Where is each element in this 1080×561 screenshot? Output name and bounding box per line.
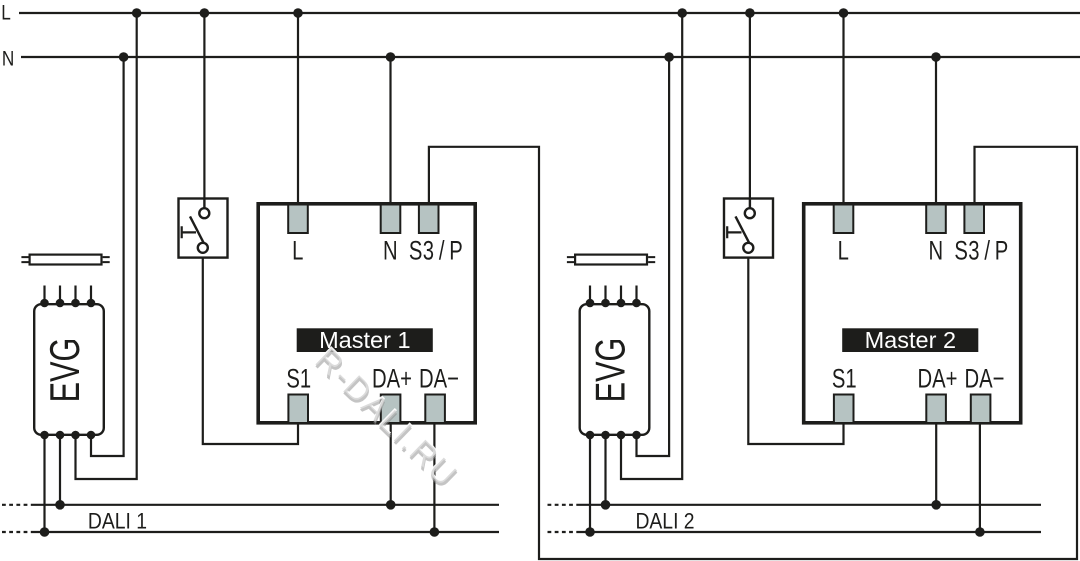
svg-text:L: L <box>1 1 11 25</box>
svg-text:N: N <box>928 236 943 267</box>
svg-text:DA−: DA− <box>965 364 1005 395</box>
svg-text:DALI 2: DALI 2 <box>635 509 694 534</box>
svg-text:L: L <box>838 236 849 267</box>
svg-text:EVG: EVG <box>42 338 89 403</box>
svg-text:N: N <box>383 236 398 267</box>
svg-text:EVG: EVG <box>587 338 634 403</box>
svg-text:L: L <box>292 236 303 267</box>
svg-text:S1: S1 <box>286 364 311 395</box>
svg-text:S1: S1 <box>832 364 857 395</box>
svg-text:DALI 1: DALI 1 <box>88 509 147 534</box>
svg-text:S3 / P: S3 / P <box>954 236 1008 267</box>
svg-text:DA−: DA− <box>419 364 459 395</box>
svg-text:S3 / P: S3 / P <box>409 236 463 267</box>
svg-text:N: N <box>2 47 14 71</box>
svg-text:DA+: DA+ <box>918 364 958 395</box>
svg-text:Master 2: Master 2 <box>865 327 956 353</box>
